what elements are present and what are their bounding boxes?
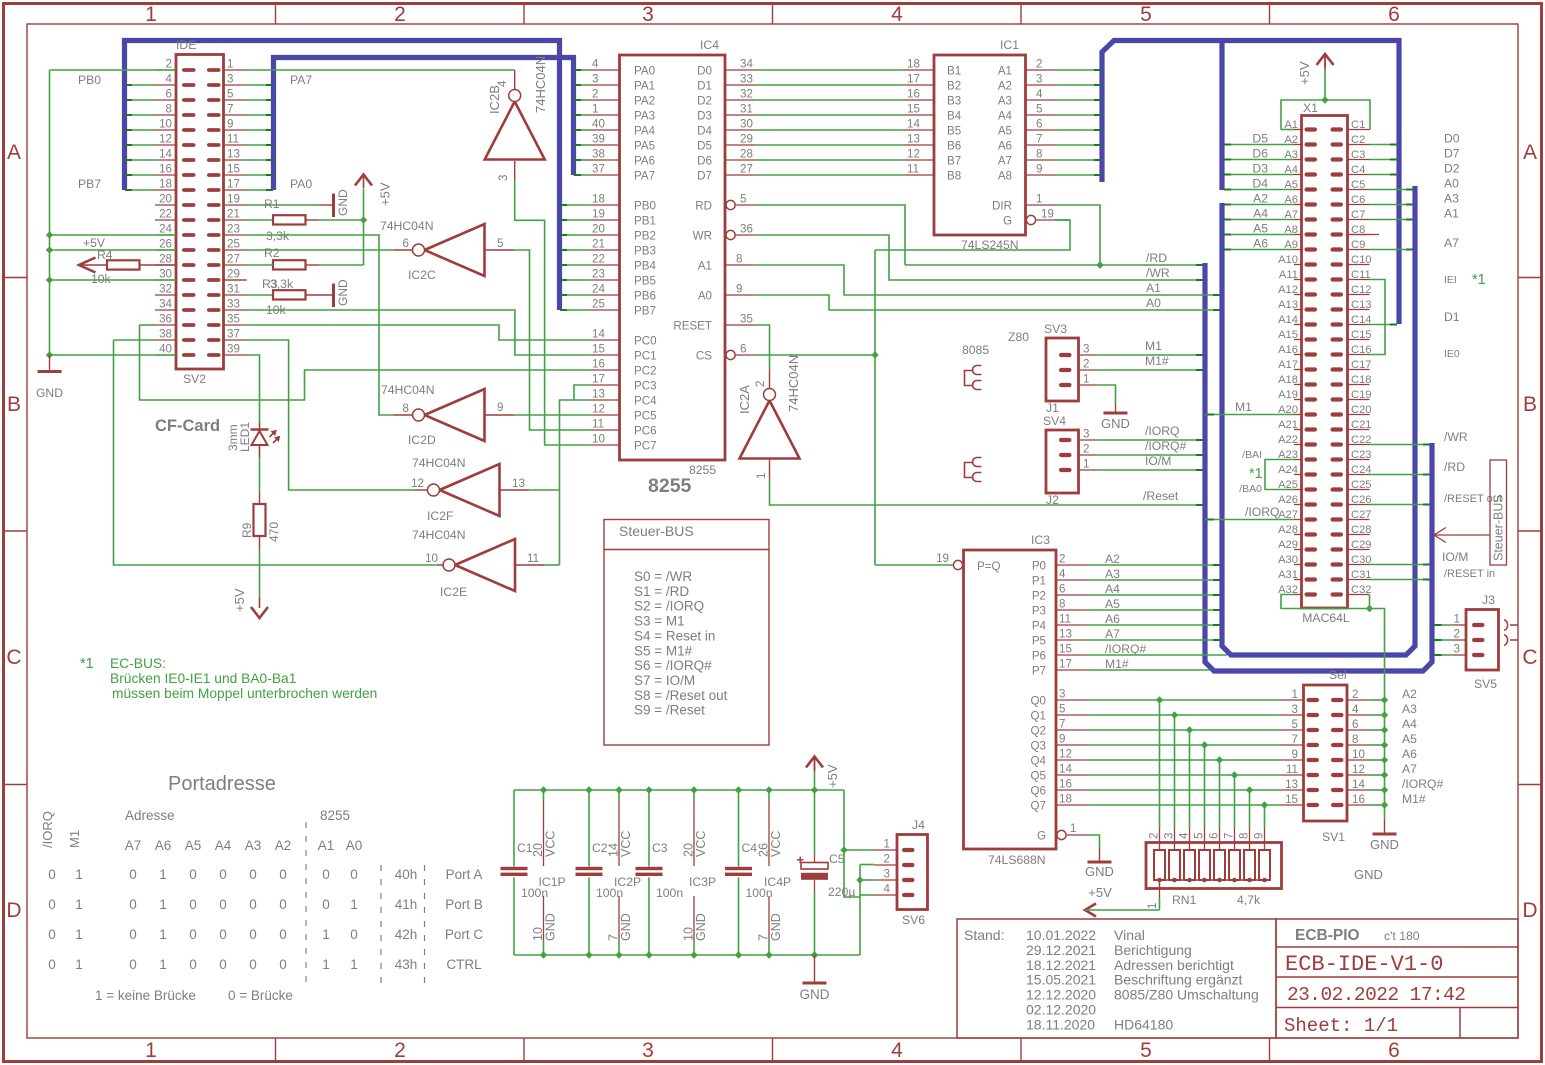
svg-text:14: 14 <box>1059 763 1072 776</box>
svg-text:15: 15 <box>227 163 240 176</box>
svg-text:2: 2 <box>394 1039 406 1062</box>
svg-text:A18: A18 <box>1278 374 1298 386</box>
svg-text:/IORQ#: /IORQ# <box>1145 439 1187 453</box>
svg-text:Stand:: Stand: <box>964 927 1004 943</box>
wires J3 pins to Steuer bus <box>1435 624 1454 626</box>
svg-text:A4: A4 <box>998 110 1013 123</box>
revision history box <box>957 919 1276 1038</box>
svg-text:PC7: PC7 <box>634 440 657 453</box>
svg-text:11: 11 <box>1059 613 1071 626</box>
svg-text:29: 29 <box>227 268 240 281</box>
svg-text:Q7: Q7 <box>1031 800 1046 813</box>
svg-text:0: 0 <box>350 927 358 942</box>
svg-text:A15: A15 <box>1278 329 1298 341</box>
svg-text:S7 = IO/M: S7 = IO/M <box>634 673 695 688</box>
Steuer-BUS pointer box <box>1490 460 1507 565</box>
svg-text:PA5: PA5 <box>634 140 655 153</box>
wire pin37 to IC2F input <box>245 340 414 490</box>
svg-text:32: 32 <box>740 88 753 101</box>
svg-text:43h: 43h <box>395 957 418 972</box>
svg-text:CTRL: CTRL <box>446 957 482 972</box>
svg-text:/IORQ: /IORQ <box>1245 505 1280 519</box>
svg-text:J1: J1 <box>1046 401 1059 415</box>
IC4 pin A0 <box>725 294 755 296</box>
svg-text:GND: GND <box>1085 864 1114 879</box>
svg-text:38: 38 <box>592 148 605 161</box>
svg-text:GND: GND <box>1354 867 1383 882</box>
wire IC2E output to PC3/PC4 net <box>515 564 545 566</box>
svg-text:SV4: SV4 <box>1043 414 1066 428</box>
inverter IC2A <box>740 401 800 459</box>
svg-text:RESET: RESET <box>673 320 712 333</box>
svg-text:35: 35 <box>227 313 240 326</box>
svg-text:14: 14 <box>1352 778 1365 791</box>
svg-text:16: 16 <box>907 88 920 101</box>
svg-text:2: 2 <box>1454 628 1460 641</box>
svg-text:19: 19 <box>592 208 605 221</box>
svg-text:müssen beim Moppel unterbroche: müssen beim Moppel unterbrochen werden <box>112 686 377 701</box>
svg-text:41h: 41h <box>395 897 418 912</box>
svg-text:S5 = M1#: S5 = M1# <box>634 643 693 658</box>
svg-text:33: 33 <box>740 73 753 86</box>
IC1 pin G <box>1026 215 1035 224</box>
svg-text:12: 12 <box>1059 748 1072 761</box>
wire X1 C31 /RESET in <box>1370 579 1430 581</box>
wire SV3 pin1 to GND <box>1099 385 1116 404</box>
svg-text:/WR: /WR <box>1146 266 1170 280</box>
svg-text:0: 0 <box>129 957 137 972</box>
svg-text:A12: A12 <box>1278 284 1298 296</box>
wire IC3 P7 M1# <box>1087 669 1211 671</box>
svg-text:2: 2 <box>1083 358 1089 371</box>
svg-text:37: 37 <box>227 328 240 341</box>
svg-text:13: 13 <box>592 388 605 401</box>
+5V symbol near R1 <box>363 189 365 220</box>
power rail bottom <box>514 954 860 956</box>
wires RN1 resistors up to Q lines <box>1159 700 1161 828</box>
svg-text:+5V: +5V <box>378 182 393 206</box>
svg-text:11: 11 <box>227 133 239 146</box>
svg-text:CS: CS <box>696 350 712 363</box>
svg-text:30: 30 <box>159 268 172 281</box>
svg-text:7: 7 <box>1223 833 1236 839</box>
svg-text:0: 0 <box>249 927 257 942</box>
svg-text:10: 10 <box>592 433 605 446</box>
svg-text:5: 5 <box>1292 718 1298 731</box>
svg-text:26: 26 <box>159 238 172 251</box>
svg-text:13: 13 <box>1059 628 1072 641</box>
svg-text:9: 9 <box>1292 748 1298 761</box>
wires IDE even pins to PB bus <box>127 84 156 86</box>
svg-text:0: 0 <box>219 867 227 882</box>
svg-text:8: 8 <box>1059 598 1065 611</box>
svg-text:A4: A4 <box>1253 207 1268 221</box>
svg-text:S1 = /RD: S1 = /RD <box>634 584 689 599</box>
svg-text:4: 4 <box>1036 88 1043 101</box>
wires X1 left data rows D5 D6 D3 D4 <box>1225 144 1295 146</box>
connector J3 SV5 box <box>1466 610 1499 671</box>
svg-text:PA7: PA7 <box>634 170 655 183</box>
svg-text:SV6: SV6 <box>902 913 925 927</box>
rail junction dots <box>540 786 547 793</box>
svg-text:PB0: PB0 <box>78 73 101 87</box>
svg-text:29: 29 <box>740 133 753 146</box>
svg-text:Vinal: Vinal <box>1114 927 1145 943</box>
svg-text:40h: 40h <box>395 867 418 882</box>
wires X1 right to data bus C2 C3 C4 <box>1370 144 1398 146</box>
svg-text:GND: GND <box>336 189 350 216</box>
svg-text:11: 11 <box>592 418 604 431</box>
wire IC3 G to GND <box>1087 835 1100 849</box>
svg-text:0: 0 <box>189 927 197 942</box>
wire RD to /RD <box>755 205 905 265</box>
wire X1 C11 C16 bridge IEI IE0 <box>1370 280 1386 355</box>
wire LED1 to R9 <box>259 457 261 492</box>
svg-text:/WR: /WR <box>1444 430 1468 444</box>
svg-text:A6: A6 <box>155 838 172 853</box>
svg-text:0: 0 <box>279 957 287 972</box>
IC4 pin RESET <box>725 324 755 326</box>
svg-text:IC2E: IC2E <box>440 585 467 599</box>
svg-text:5: 5 <box>1140 3 1152 26</box>
svg-text:IC1P: IC1P <box>539 875 566 889</box>
wire SV3 pin2 M1# <box>1099 369 1203 371</box>
svg-text:9: 9 <box>1059 733 1065 746</box>
svg-text:/IORQ#: /IORQ# <box>1105 642 1147 656</box>
svg-text:PB7: PB7 <box>78 177 101 191</box>
svg-text:18: 18 <box>1059 793 1072 806</box>
svg-text:M1#: M1# <box>1402 792 1426 806</box>
svg-text:1: 1 <box>1454 613 1460 626</box>
svg-text:+5V: +5V <box>1088 885 1112 900</box>
svg-text:0: 0 <box>189 897 197 912</box>
svg-text:17: 17 <box>907 73 920 86</box>
svg-text:0: 0 <box>249 957 257 972</box>
svg-text:23: 23 <box>592 268 605 281</box>
svg-text:D1: D1 <box>697 80 712 93</box>
svg-text:18: 18 <box>159 178 172 191</box>
svg-text:PB4: PB4 <box>634 260 656 273</box>
svg-text:/RESET in: /RESET in <box>1444 568 1495 580</box>
svg-text:40: 40 <box>592 118 605 131</box>
svg-text:B: B <box>1523 393 1537 416</box>
svg-text:IC2A: IC2A <box>737 385 752 414</box>
bus PB (IDE left to 8255 PB) <box>125 41 560 311</box>
svg-text:28: 28 <box>159 253 172 266</box>
svg-text:6: 6 <box>1036 118 1042 131</box>
junction dots GND rail <box>46 231 53 238</box>
svg-text:A4: A4 <box>1402 717 1417 731</box>
wire IC2D output to PC5 <box>485 414 515 416</box>
svg-text:IC3P: IC3P <box>689 875 716 889</box>
svg-text:3: 3 <box>227 73 233 86</box>
wire X1 C14 D1 <box>1370 324 1397 326</box>
svg-text:PA7: PA7 <box>290 73 312 87</box>
svg-text:13: 13 <box>512 477 525 490</box>
svg-text:1: 1 <box>1036 193 1042 206</box>
svg-text:8: 8 <box>736 253 742 266</box>
svg-text:C21: C21 <box>1351 419 1372 431</box>
wires IDE odd pins to PA bus <box>245 84 272 86</box>
svg-text:4: 4 <box>166 73 173 86</box>
wire X1 A27 /IORQ <box>1205 519 1294 521</box>
svg-text:16: 16 <box>159 163 172 176</box>
svg-text:1: 1 <box>350 897 358 912</box>
svg-text:Q0: Q0 <box>1031 695 1046 708</box>
capacitor C1 <box>513 790 515 867</box>
svg-text:/BAI: /BAI <box>1242 449 1262 461</box>
inverter IC2D <box>425 389 485 441</box>
svg-text:A14: A14 <box>1278 314 1298 326</box>
svg-text:3: 3 <box>497 175 510 181</box>
resistor R1 <box>245 219 273 221</box>
svg-text:IC2C: IC2C <box>408 268 436 282</box>
wire G to CS net <box>1055 219 1070 221</box>
svg-text:S9 = /Reset: S9 = /Reset <box>634 703 705 718</box>
svg-text:8255: 8255 <box>689 463 716 477</box>
svg-text:14: 14 <box>907 118 920 131</box>
svg-text:M1#: M1# <box>1145 354 1169 368</box>
svg-text:IE0: IE0 <box>1444 348 1460 360</box>
svg-text:PC2: PC2 <box>634 365 657 378</box>
svg-text:RN1: RN1 <box>1172 893 1197 907</box>
svg-text:3: 3 <box>1163 833 1176 839</box>
svg-text:PA2: PA2 <box>634 95 655 108</box>
wires IC3 P side to address bus <box>1087 564 1220 566</box>
svg-text:D1: D1 <box>1444 310 1460 324</box>
svg-text:6: 6 <box>1059 583 1065 596</box>
svg-text:B2: B2 <box>947 80 961 93</box>
svg-text:22: 22 <box>159 208 172 221</box>
svg-text:A1: A1 <box>1146 281 1161 295</box>
svg-text:8085: 8085 <box>962 343 989 357</box>
svg-text:40: 40 <box>159 343 172 356</box>
svg-text:A13: A13 <box>1278 299 1298 311</box>
resistor R9 <box>259 492 261 504</box>
svg-text:S2 = /IORQ: S2 = /IORQ <box>634 599 704 614</box>
+5V arrow down at R9 <box>259 597 261 608</box>
svg-text:4,7k: 4,7k <box>1237 893 1261 907</box>
svg-text:GND: GND <box>694 913 708 941</box>
svg-text:S4 = Reset in: S4 = Reset in <box>634 628 715 643</box>
svg-text:1: 1 <box>145 1039 157 1062</box>
svg-text:C30: C30 <box>1351 554 1372 566</box>
svg-text:M1: M1 <box>67 830 82 848</box>
svg-text:PA6: PA6 <box>634 155 655 168</box>
svg-text:Adressen berichtigt: Adressen berichtigt <box>1114 957 1234 973</box>
svg-text:33: 33 <box>227 298 240 311</box>
svg-text:C9: C9 <box>1351 239 1365 251</box>
svg-text:C3: C3 <box>652 841 668 855</box>
svg-text:Z80: Z80 <box>1008 330 1029 344</box>
svg-text:C26: C26 <box>1351 494 1372 506</box>
svg-text:12: 12 <box>411 477 424 490</box>
svg-text:4: 4 <box>884 883 891 896</box>
svg-text:Beschriftung ergänzt: Beschriftung ergänzt <box>1114 972 1243 988</box>
svg-text:C15: C15 <box>1351 329 1372 341</box>
svg-text:RD: RD <box>695 200 712 213</box>
svg-text:0: 0 <box>219 957 227 972</box>
svg-text:Port A: Port A <box>446 867 483 882</box>
svg-text:17: 17 <box>227 178 240 191</box>
svg-text:A7: A7 <box>1105 627 1120 641</box>
svg-text:C14: C14 <box>1351 314 1372 326</box>
svg-text:5: 5 <box>1059 703 1065 716</box>
svg-text:C1: C1 <box>1351 119 1365 131</box>
svg-text:02.12.2020: 02.12.2020 <box>1026 1002 1096 1018</box>
svg-text:0: 0 <box>279 897 287 912</box>
svg-text:9: 9 <box>736 283 742 296</box>
resistor R4 with +5V arrow <box>79 258 96 273</box>
svg-text:PA1: PA1 <box>634 80 655 93</box>
IC IC3 74LS688N box <box>964 550 1057 849</box>
svg-text:GND: GND <box>800 987 830 1002</box>
svg-text:12: 12 <box>159 133 172 146</box>
staircase junction dots RN1 <box>1156 696 1163 703</box>
svg-text:3: 3 <box>1059 688 1065 701</box>
connector SV4 box <box>1046 430 1079 493</box>
svg-text:0: 0 <box>129 867 137 882</box>
junction dot C5 GND <box>811 951 818 958</box>
svg-text:C28: C28 <box>1351 524 1372 536</box>
wires PA bus to IC4 <box>576 69 591 71</box>
wire X1 C26 /RESET out <box>1370 504 1430 506</box>
svg-text:5: 5 <box>1193 833 1206 839</box>
power symbol IC1P <box>543 790 545 801</box>
IC1 left pins B1-B8 <box>904 69 934 71</box>
svg-text:7: 7 <box>1036 133 1042 146</box>
svg-text:16: 16 <box>592 358 605 371</box>
svg-text:PC5: PC5 <box>634 410 657 423</box>
IC4 pin WR <box>726 230 735 239</box>
svg-text:1: 1 <box>159 897 167 912</box>
bus Steuer outer U around X1 <box>1205 263 1432 671</box>
svg-text:10.01.2022: 10.01.2022 <box>1026 927 1096 943</box>
svg-text:C6: C6 <box>1351 194 1365 206</box>
svg-text:Q3: Q3 <box>1031 740 1046 753</box>
+5V symbol above X1 <box>1317 54 1334 65</box>
IC3 P pins <box>1056 564 1087 566</box>
wire IC3 P=Q from CS net <box>875 564 953 566</box>
svg-text:0: 0 <box>48 957 56 972</box>
svg-text:28: 28 <box>740 148 753 161</box>
svg-text:Q2: Q2 <box>1031 725 1046 738</box>
svg-text:10k: 10k <box>91 272 112 286</box>
wire X1 A20 M1 <box>1205 414 1294 416</box>
svg-text:PB2: PB2 <box>634 230 656 243</box>
resistor network RN1 box <box>1146 843 1282 889</box>
svg-text:A19: A19 <box>1278 389 1298 401</box>
wire RESET to IC2A output <box>755 325 770 370</box>
svg-text:A30: A30 <box>1278 554 1298 566</box>
svg-text:M1#: M1# <box>1105 657 1129 671</box>
svg-text:19: 19 <box>227 193 240 206</box>
svg-text:24: 24 <box>159 223 172 236</box>
svg-text:11: 11 <box>527 552 539 565</box>
svg-text:+5V: +5V <box>232 588 247 612</box>
svg-text:0: 0 <box>189 957 197 972</box>
svg-text:/Reset: /Reset <box>1143 489 1179 503</box>
svg-text:A28: A28 <box>1278 524 1298 536</box>
junction dot X1 +5V <box>1321 96 1328 103</box>
svg-text:A29: A29 <box>1278 539 1298 551</box>
svg-text:18.11.2020: 18.11.2020 <box>1026 1016 1095 1032</box>
Steuer-BUS arrow <box>1434 534 1490 536</box>
svg-text:0: 0 <box>249 867 257 882</box>
svg-text:DIR: DIR <box>992 200 1012 213</box>
svg-text:39: 39 <box>592 133 605 146</box>
svg-text:C12: C12 <box>1351 284 1372 296</box>
svg-text:13: 13 <box>227 148 240 161</box>
svg-text:IC2B: IC2B <box>487 85 502 114</box>
connector SV2 IDE box <box>176 55 224 370</box>
svg-text:D5: D5 <box>1252 132 1268 146</box>
svg-text:0: 0 <box>48 897 56 912</box>
svg-text:5: 5 <box>227 88 233 101</box>
table dashed separators <box>305 822 307 985</box>
svg-text:9: 9 <box>1036 163 1042 176</box>
svg-text:D: D <box>6 899 21 922</box>
svg-text:Q5: Q5 <box>1031 770 1046 783</box>
svg-text:100n: 100n <box>656 886 683 900</box>
svg-text:/RD: /RD <box>1146 251 1167 265</box>
svg-text:15: 15 <box>592 343 605 356</box>
svg-text:A7: A7 <box>125 838 142 853</box>
svg-text:*1: *1 <box>1472 272 1486 288</box>
svg-text:C5: C5 <box>829 852 845 866</box>
svg-text:PA3: PA3 <box>634 110 655 123</box>
X1 C8 stub <box>1348 234 1380 236</box>
svg-text:8255: 8255 <box>320 808 350 823</box>
svg-text:SV5: SV5 <box>1474 677 1497 691</box>
svg-text:EC-BUS:: EC-BUS: <box>110 656 166 671</box>
svg-text:M1: M1 <box>1235 400 1252 414</box>
svg-text:1: 1 <box>159 927 167 942</box>
svg-text:PC6: PC6 <box>634 425 657 438</box>
svg-text:35: 35 <box>740 313 753 326</box>
bus data D0-D7 (IC1 right around top to X1) <box>1102 41 1399 325</box>
IC4 pin A1 <box>725 264 755 266</box>
svg-text:74HC04N: 74HC04N <box>412 456 466 470</box>
svg-text:1: 1 <box>75 927 83 942</box>
IC1 pin DIR <box>1026 204 1056 206</box>
svg-text:9: 9 <box>1253 833 1266 839</box>
svg-text:A3: A3 <box>1402 702 1417 716</box>
power symbol IC3P <box>693 790 695 801</box>
wire pin25 to IC2C input <box>245 249 394 251</box>
svg-text:74HC04N: 74HC04N <box>533 56 548 113</box>
svg-text:C29: C29 <box>1351 539 1372 551</box>
svg-text:A2: A2 <box>998 80 1012 93</box>
svg-text:D4: D4 <box>1252 177 1268 191</box>
connector SV3 box <box>1046 338 1079 401</box>
svg-text:74HC04N: 74HC04N <box>412 528 466 542</box>
svg-text:IC2D: IC2D <box>408 433 436 447</box>
svg-text:A1: A1 <box>1444 207 1459 221</box>
svg-text:13: 13 <box>1285 778 1298 791</box>
wires power rail to J4 <box>844 790 860 897</box>
svg-text:0: 0 <box>279 927 287 942</box>
svg-text:5: 5 <box>497 237 503 250</box>
svg-text:2: 2 <box>1148 833 1161 839</box>
svg-text:PB3: PB3 <box>634 245 656 258</box>
svg-text:27: 27 <box>227 253 240 266</box>
wire pin19 to GND <box>245 204 319 206</box>
svg-text:24: 24 <box>592 283 605 296</box>
svg-text:18: 18 <box>592 193 605 206</box>
svg-text:J4: J4 <box>912 818 925 832</box>
svg-text:C23: C23 <box>1351 449 1372 461</box>
